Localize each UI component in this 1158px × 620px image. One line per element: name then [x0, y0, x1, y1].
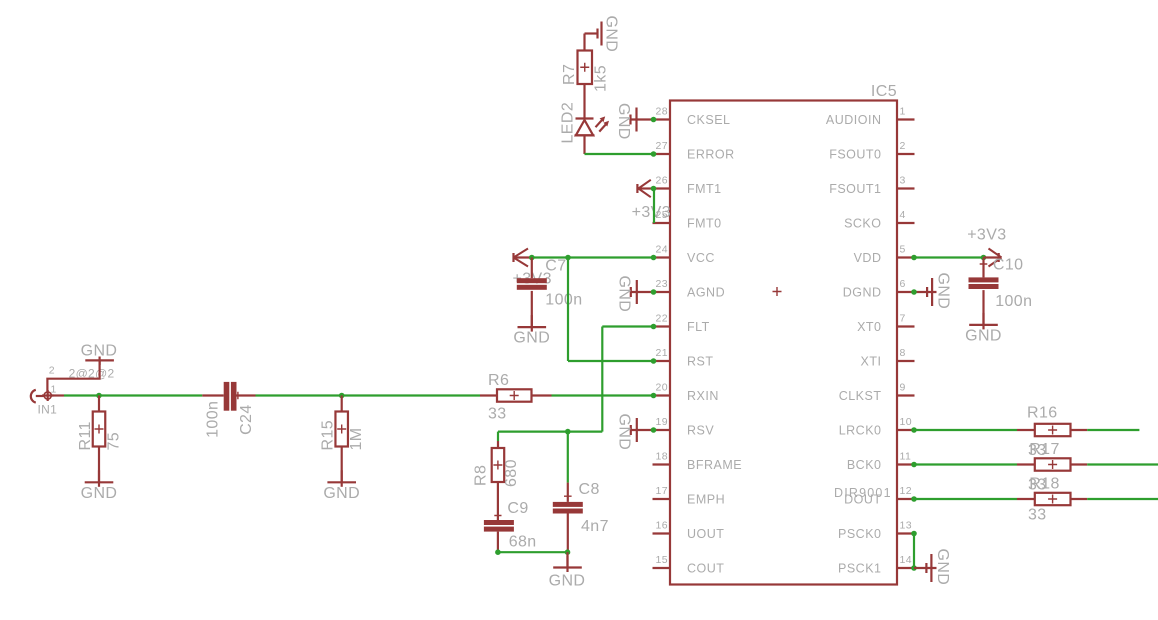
svg-text:DOUT: DOUT [844, 492, 881, 506]
pin 27 ERROR (left) [653, 153, 671, 155]
pin 25 FMT0 (left) [653, 222, 671, 224]
svg-text:27: 27 [656, 140, 668, 152]
capacitor C24 100n [202, 394, 223, 396]
svg-text:FMT0: FMT0 [687, 216, 722, 230]
wire net RST to pin 21 [568, 360, 654, 362]
ground below C8 [566, 556, 568, 573]
svg-text:75: 75 [106, 432, 123, 451]
wire C10 to ground [982, 290, 984, 325]
wire net RXIN middle segment [256, 394, 481, 396]
pin 17 EMPH (left) [653, 498, 671, 500]
junction VCC/RST branch [565, 255, 571, 261]
svg-text:16: 16 [656, 520, 668, 532]
junction on pin 10 [911, 427, 917, 433]
wire IN1 pin2 to ground [47, 361, 99, 393]
junction at R11 [96, 393, 102, 399]
junction on pin 11 [911, 462, 917, 468]
junction on pin 27 [651, 151, 657, 157]
pin 23 AGND (left) [653, 291, 671, 293]
svg-text:15: 15 [656, 554, 668, 566]
ground at pin 14 PSCK1 [914, 567, 937, 569]
svg-text:LRCK0: LRCK0 [839, 423, 882, 437]
svg-text:2: 2 [900, 140, 906, 152]
wire R11 to ground [98, 447, 100, 483]
svg-text:GND: GND [81, 485, 118, 502]
svg-text:28: 28 [656, 106, 668, 118]
pin 13 PSCK0 (right) [897, 532, 915, 534]
wire net FLT vertical [601, 327, 603, 432]
svg-text:EMPH: EMPH [687, 492, 725, 506]
svg-text:R16: R16 [1027, 404, 1058, 421]
svg-text:2: 2 [49, 364, 55, 376]
resistor R15 1M [341, 396, 343, 412]
supply +3V3 arrow left of C7 [512, 253, 514, 262]
pin 5 VDD (right) [897, 256, 915, 258]
junction on pin 14 [911, 565, 917, 571]
wire net FLT from pin 22 [602, 325, 653, 327]
svg-text:1k5: 1k5 [593, 65, 610, 92]
pin 15 COUT (left) [653, 567, 671, 569]
svg-text:LED2: LED2 [560, 102, 577, 144]
ground below R11 [98, 470, 100, 487]
pin 2 FSOUT0 (right) [897, 153, 915, 155]
wire net RXIN to pin 20 [552, 394, 654, 396]
pin 21 RST (left) [653, 360, 671, 362]
svg-text:VDD: VDD [854, 251, 882, 265]
wire net from pin 10 [914, 429, 1017, 431]
resistor R8 680 [492, 448, 505, 482]
svg-text:GND: GND [513, 330, 550, 347]
svg-text:11: 11 [900, 451, 912, 463]
wire C8 to node [567, 514, 569, 553]
wire node to ground [566, 552, 568, 567]
junction on pin 26 [651, 186, 657, 192]
svg-text:IC5: IC5 [871, 83, 897, 100]
junction on pin 19 [651, 427, 657, 433]
svg-text:26: 26 [656, 175, 668, 187]
svg-text:FSOUT0: FSOUT0 [829, 147, 881, 161]
svg-text:4: 4 [900, 209, 906, 221]
svg-text:GND: GND [934, 549, 951, 586]
wire net from pin 11 [914, 463, 1017, 465]
svg-text:R11: R11 [77, 421, 94, 450]
svg-text:R17: R17 [1029, 441, 1060, 458]
pin 9 CLKST (right) [897, 394, 915, 396]
wire C7 to ground [531, 291, 533, 327]
svg-text:GND: GND [615, 103, 632, 140]
wire after R16 [1087, 429, 1139, 431]
svg-text:CLKST: CLKST [839, 389, 882, 403]
resistor R6 33 [480, 394, 497, 396]
junction on pin 21 [651, 358, 657, 364]
svg-text:XT0: XT0 [857, 320, 881, 334]
junction on pin 6 [911, 289, 917, 295]
wire after R18 [1087, 498, 1158, 500]
svg-text:AUDIOIN: AUDIOIN [826, 113, 882, 127]
ground below C10 [982, 313, 984, 330]
svg-text:R6: R6 [488, 372, 509, 389]
svg-text:RXIN: RXIN [687, 389, 719, 403]
svg-text:24: 24 [656, 244, 668, 256]
svg-text:GND: GND [965, 327, 1002, 344]
wire net RXIN left segment [64, 394, 202, 396]
svg-text:VCC: VCC [687, 251, 715, 265]
supply +3V3 at pin 26 FMT1 [638, 187, 653, 189]
svg-text:680: 680 [503, 459, 520, 487]
svg-text:8: 8 [900, 347, 906, 359]
supply +3V3 right of pin 5 [984, 256, 1001, 258]
junction on pin 28 [651, 117, 657, 123]
ground below C7 [531, 315, 533, 332]
pin 10 LRCK0 (right) [897, 429, 915, 431]
wire after R17 [1087, 463, 1158, 465]
capacitor C8 4n7 [553, 502, 583, 507]
svg-text:R15: R15 [320, 420, 337, 451]
svg-text:14: 14 [900, 554, 912, 566]
svg-text:GND: GND [603, 16, 620, 53]
ground at pin 6 DGND [914, 291, 937, 293]
svg-text:C9: C9 [507, 500, 528, 517]
svg-text:FMT1: FMT1 [687, 182, 722, 196]
svg-text:AGND: AGND [687, 285, 725, 299]
svg-text:CKSEL: CKSEL [687, 113, 731, 127]
svg-text:R7: R7 [561, 64, 578, 85]
ground above R7 [583, 34, 585, 51]
svg-text:5: 5 [900, 244, 906, 256]
svg-text:4n7: 4n7 [581, 518, 609, 535]
wire R7 to LED2 [583, 84, 585, 119]
wire net VCC to pin 24 [532, 256, 654, 258]
pin 26 FMT1 (left) [653, 187, 671, 189]
pin 12 DOUT (right) [897, 498, 915, 500]
junction at R15 [339, 393, 345, 399]
wire R15 to ground [341, 447, 343, 483]
pin 20 RXIN (left) [653, 394, 671, 396]
svg-text:RST: RST [687, 354, 714, 368]
wire net +3V3 pin26 to pin25 [653, 189, 655, 224]
svg-text:R18: R18 [1029, 476, 1060, 493]
junction on pin 23 [651, 289, 657, 295]
svg-text:C10: C10 [993, 257, 1024, 274]
svg-text:XTI: XTI [861, 354, 882, 368]
pin 18 BFRAME (left) [653, 463, 671, 465]
svg-text:BFRAME: BFRAME [687, 458, 742, 472]
capacitor C9 68n [484, 520, 514, 525]
wire R8 to C9 [497, 482, 499, 520]
svg-text:20: 20 [656, 382, 668, 394]
LED LED2 [576, 117, 594, 119]
wire LED2 anode down [583, 135, 585, 154]
wire net VDD from pin 5 [914, 256, 984, 258]
pin 19 RSV (left) [653, 429, 671, 431]
junction on pin 12 [911, 496, 917, 502]
svg-text:21: 21 [656, 347, 668, 359]
svg-text:13: 13 [900, 520, 912, 532]
resistor R18 33 [1017, 498, 1035, 500]
svg-text:+3V3: +3V3 [632, 204, 671, 221]
capacitor C10 100n [982, 258, 984, 278]
svg-text:10: 10 [900, 416, 912, 428]
pin 1 AUDIOIN (right) [897, 118, 915, 120]
pin 3 FSOUT1 (right) [897, 187, 915, 189]
svg-text:C8: C8 [579, 481, 600, 498]
svg-text:7: 7 [900, 313, 906, 325]
wire C9 node to C8 node [498, 551, 568, 553]
svg-text:GND: GND [616, 276, 633, 313]
junction on pin 24 [651, 255, 657, 261]
svg-text:SCKO: SCKO [844, 216, 881, 230]
capacitor C7 100n [531, 258, 533, 279]
svg-text:GND: GND [616, 414, 633, 451]
svg-text:12: 12 [900, 485, 912, 497]
svg-text:100n: 100n [545, 292, 582, 309]
IC IC5 DIR9001 box outline [670, 101, 897, 585]
resistor R11 75 [98, 396, 100, 412]
wire net ERROR to pin 27 [585, 153, 654, 155]
pin 11 BCK0 (right) [897, 463, 915, 465]
svg-text:RSV: RSV [687, 423, 714, 437]
svg-text:22: 22 [656, 313, 668, 325]
pin 14 PSCK1 (right) [897, 567, 915, 569]
pin 8 XTI (right) [897, 360, 915, 362]
svg-text:R8: R8 [472, 465, 489, 486]
junction at C10 top [981, 255, 987, 261]
ground at pin 23 AGND [630, 291, 654, 293]
svg-text:33: 33 [1028, 507, 1047, 524]
junction on pin 22 [651, 324, 657, 330]
pin 7 XT0 (right) [897, 325, 915, 327]
svg-text:17: 17 [656, 485, 668, 497]
svg-text:GND: GND [323, 485, 360, 502]
svg-text:UOUT: UOUT [687, 527, 724, 541]
junction FLT / C8 branch [565, 429, 571, 435]
junction on pin 5 [911, 255, 917, 261]
wire net PSCK pin13 to pin14 [913, 534, 915, 569]
pin 16 UOUT (left) [653, 532, 671, 534]
svg-text:GND: GND [935, 273, 952, 310]
resistor R7 1k5 [578, 51, 593, 85]
svg-text:IN1: IN1 [38, 403, 58, 417]
wire net FLT horizontal to R8 [498, 431, 602, 433]
wire net RST vertical from VCC row [567, 258, 569, 362]
wire FLT branch down to R8 [497, 432, 499, 441]
svg-text:19: 19 [656, 416, 668, 428]
svg-text:FLT: FLT [687, 320, 710, 334]
pin 6 DGND (right) [897, 291, 915, 293]
svg-text:FSOUT1: FSOUT1 [829, 182, 881, 196]
ground at IN1 pin 2 [98, 357, 100, 366]
svg-text:68n: 68n [509, 534, 537, 551]
resistor R17 33 [1017, 463, 1035, 465]
ground at pin 28 CKSEL [630, 118, 654, 120]
svg-text:DGND: DGND [843, 285, 882, 299]
ground at pin 19 RSV [630, 429, 654, 431]
connector IN1 [31, 390, 36, 403]
svg-text:1: 1 [51, 384, 57, 396]
wire net from pin 12 [914, 498, 1017, 500]
svg-text:GND: GND [549, 573, 586, 590]
svg-text:C24: C24 [238, 404, 255, 435]
junction on pin 13 [911, 531, 917, 537]
svg-text:23: 23 [656, 278, 668, 290]
svg-text:1: 1 [900, 106, 906, 118]
svg-text:COUT: COUT [687, 561, 724, 575]
svg-text:BCK0: BCK0 [847, 458, 882, 472]
IC IC5 origin cross [773, 287, 782, 296]
wire C9 down to node [497, 532, 499, 553]
svg-text:100n: 100n [995, 293, 1032, 310]
pin 24 VCC (left) [653, 256, 671, 258]
svg-text:100n: 100n [205, 401, 222, 438]
pin 22 FLT (left) [653, 325, 671, 327]
svg-text:1M: 1M [348, 427, 365, 450]
svg-text:33: 33 [488, 405, 507, 422]
junction below C8 [565, 549, 571, 555]
svg-text:PSCK1: PSCK1 [838, 561, 882, 575]
resistor R16 33 [1017, 429, 1035, 431]
svg-text:PSCK0: PSCK0 [838, 527, 882, 541]
junction on pin 20 [651, 393, 657, 399]
pin 28 CKSEL (left) [653, 118, 671, 120]
svg-text:C7: C7 [545, 258, 566, 275]
svg-text:6: 6 [900, 278, 906, 290]
junction below C9 [495, 549, 501, 555]
svg-text:ERROR: ERROR [687, 147, 735, 161]
svg-text:+3V3: +3V3 [967, 226, 1006, 243]
svg-text:GND: GND [81, 343, 118, 360]
pin 4 SCKO (right) [897, 222, 915, 224]
svg-text:3: 3 [900, 175, 906, 187]
ground below R15 [341, 470, 343, 487]
junction at C7 top [529, 255, 535, 261]
wire C8 branch down [567, 432, 569, 483]
svg-text:18: 18 [656, 451, 668, 463]
svg-text:9: 9 [900, 382, 906, 394]
